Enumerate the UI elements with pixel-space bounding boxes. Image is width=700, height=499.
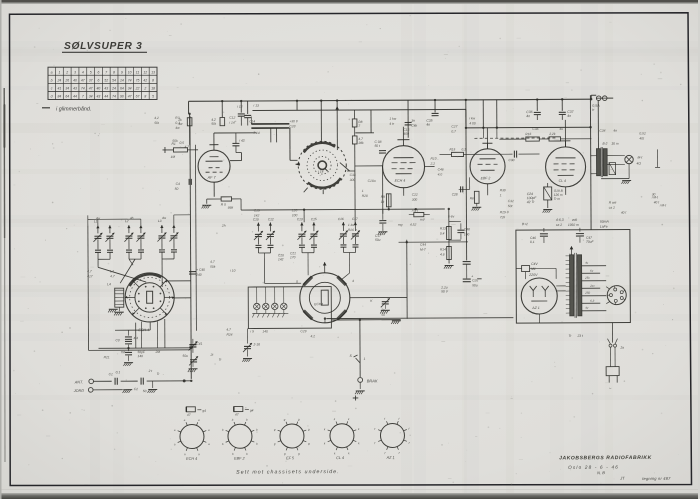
svg-text:M-T: M-T: [420, 248, 427, 252]
svg-text:JT: JT: [619, 476, 625, 481]
svg-text:SØLVSUPER 3: SØLVSUPER 3: [64, 41, 142, 52]
label T23: [568, 334, 584, 338]
svg-text:L2: L2: [125, 219, 129, 223]
svg-text:4n: 4n: [526, 114, 530, 118]
wire c48 link: [449, 221, 461, 240]
tube V2 ECH4: [382, 140, 424, 188]
wire trimmer drop1: [97, 259, 99, 267]
svg-text:417: 417: [87, 274, 93, 278]
trimmer group C5/C6: [93, 219, 114, 259]
svg-text:L4: L4: [107, 282, 111, 286]
wire ant line3: [147, 380, 192, 382]
socket EBF 2: [222, 418, 258, 461]
svg-text:R wtr: R wtr: [609, 201, 618, 205]
wire v7 down: [324, 319, 326, 323]
svg-text:34: 34: [65, 87, 69, 91]
svg-text:C4V: C4V: [531, 262, 538, 266]
svg-text:4: 4: [82, 70, 84, 74]
wire diag cross1: [98, 267, 146, 282]
tube V5 ECH4 front: [125, 273, 174, 332]
fuse mains box: [516, 266, 530, 280]
svg-text:ECH 4: ECH 4: [395, 179, 406, 183]
svg-text:34: 34: [128, 87, 132, 91]
svg-text:50u: 50u: [472, 283, 478, 287]
svg-text:90: 90: [120, 95, 124, 99]
tube V1 AF7: [198, 133, 230, 182]
capacitor C2u elco: [463, 264, 482, 281]
svg-text:C1: C1: [109, 372, 113, 376]
svg-text:R14: R14: [440, 247, 446, 251]
svg-text:10: 10: [128, 70, 132, 74]
svg-text:50mA: 50mA: [600, 220, 610, 224]
svg-text:C28: C28: [289, 124, 295, 128]
svg-text:EF 5: EF 5: [286, 456, 295, 460]
svg-text:12: 12: [143, 70, 147, 74]
capacitor C2: [134, 378, 147, 394]
label 220V: [528, 262, 538, 277]
wire x588 down: [589, 95, 592, 229]
wire plug leads: [611, 347, 616, 367]
wire v3 right: [425, 166, 435, 168]
value labels: [86, 113, 668, 417]
wire x193 gnd: [192, 363, 194, 367]
svg-text:300: 300: [412, 198, 418, 202]
svg-text:i glimmerbånd.: i glimmerbånd.: [56, 106, 91, 113]
padder group C16-C17: [338, 217, 360, 258]
wire c36 stub: [536, 115, 538, 120]
svg-text:4,7: 4,7: [226, 328, 231, 332]
svg-text:C4: C4: [176, 182, 180, 186]
svg-text:CL 4: CL 4: [336, 456, 344, 460]
trimmer C22 gnd: [0, 1, 197, 352]
svg-text:C27: C27: [451, 124, 457, 128]
svg-text:R3: R3: [175, 116, 179, 120]
svg-text:7: 7: [358, 124, 360, 128]
wire x407 vert: [406, 240, 408, 319]
svg-text:8: 8: [152, 79, 154, 83]
svg-text:b: b: [51, 79, 53, 83]
svg-text:44: 44: [73, 95, 77, 99]
wire vert x88 top: [87, 215, 89, 225]
svg-text:i 12: i 12: [237, 105, 243, 109]
svg-text:47: 47: [81, 79, 85, 83]
svg-text:tegning nr 487: tegning nr 487: [642, 476, 671, 481]
svg-text:mg: mg: [398, 223, 403, 227]
ground x193: [188, 369, 198, 372]
svg-text:1092 m: 1092 m: [568, 223, 579, 227]
svg-text:4w: 4w: [162, 216, 167, 220]
wire drop x467: [465, 100, 468, 260]
wire avc drop2: [388, 194, 390, 209]
svg-text:2M: 2M: [155, 350, 161, 354]
wire ant line2: [121, 380, 138, 382]
svg-text:4,7: 4,7: [87, 269, 92, 273]
svg-text:1 kw: 1 kw: [348, 223, 355, 227]
wire trimmer top3: [174, 215, 191, 225]
svg-text:C34: C34: [350, 173, 356, 177]
wire diag cross2: [120, 259, 135, 283]
svg-text:1: 1: [58, 70, 60, 74]
svg-text:43: 43: [97, 95, 101, 99]
svg-text:4,7: 4,7: [184, 145, 189, 149]
ground V1 cathode: [202, 205, 212, 208]
label hoyt: [602, 142, 618, 146]
svg-text:50: 50: [175, 187, 179, 191]
wire y240 right: [399, 241, 468, 243]
wire rect bottom: [538, 314, 540, 323]
wire HT bus jog: [591, 95, 596, 99]
fuse F1 0.5A: [592, 96, 607, 112]
wire left bus drop: [189, 114, 191, 145]
trimmer C23: [243, 342, 260, 356]
wire v3 cath: [403, 188, 405, 196]
mains plug: [606, 367, 619, 391]
svg-text:C34: C34: [599, 129, 605, 133]
wire row y140: [499, 138, 591, 140]
resistor R9 cath: [381, 194, 391, 207]
switch S3 mains: [607, 339, 624, 350]
svg-text:R30: R30: [500, 188, 506, 192]
svg-text:Tr m: Tr m: [554, 197, 561, 201]
svg-text:R28: R28: [362, 194, 368, 198]
resistor R2 top: [177, 118, 192, 126]
svg-text:13: 13: [151, 70, 155, 74]
svg-text:C30: C30: [509, 158, 515, 162]
svg-text:R13: R13: [440, 226, 446, 230]
svg-text:2-18: 2-18: [252, 342, 260, 346]
wire v4 topcap: [482, 128, 492, 149]
svg-text:4 00: 4 00: [469, 121, 476, 125]
wire drop x242: [240, 101, 242, 112]
svg-text:ECH4: ECH4: [314, 302, 323, 306]
svg-text:42: 42: [143, 79, 147, 83]
svg-text:8: 8: [144, 95, 146, 99]
svg-text:4n: 4n: [567, 114, 571, 118]
svg-text:L20: L20: [292, 208, 298, 212]
ground y320 right: [391, 321, 401, 324]
svg-text:R21: R21: [104, 355, 110, 359]
transformer taps: [582, 261, 607, 311]
svg-text:9: 9: [121, 70, 123, 74]
socket EF 5: [274, 417, 310, 460]
resistor R13: [440, 226, 451, 239]
label 4ohm: [637, 161, 642, 165]
capacitor C47: [576, 228, 595, 244]
svg-text:1: 1: [364, 357, 366, 361]
svg-text:4w: 4w: [175, 126, 180, 130]
wire c17: [382, 209, 384, 213]
svg-text:6: 6: [97, 79, 99, 83]
ground C17: [378, 232, 388, 235]
wire v1 cath: [213, 182, 215, 196]
svg-text:84: 84: [58, 95, 62, 99]
capacitor C11: [237, 105, 245, 126]
svg-text:R10: R10: [431, 157, 437, 161]
wire x497 down: [496, 128, 498, 138]
label 50mA: [600, 220, 610, 229]
ground C3b: [123, 363, 133, 366]
ground BRAK: [355, 391, 365, 394]
svg-text:4n: 4n: [426, 123, 430, 127]
svg-text:72k: 72k: [500, 215, 506, 219]
label JAKOBSBERGS: [559, 455, 652, 461]
svg-text:C17: C17: [352, 217, 358, 221]
svg-text:4u: 4u: [559, 127, 563, 131]
wire brak gnd: [359, 382, 361, 388]
svg-text:0,1: 0,1: [530, 240, 535, 244]
wire y318 bus: [326, 317, 513, 320]
wire right stub: [655, 149, 660, 167]
svg-text:64: 64: [120, 87, 124, 91]
svg-text:14: 14: [120, 79, 124, 83]
svg-text:1: 1: [500, 193, 502, 197]
wire x383 vert: [382, 166, 384, 214]
svg-text:64: 64: [65, 95, 69, 99]
trimmer group C9/C10: [157, 219, 178, 259]
svg-text:C32: C32: [508, 199, 514, 203]
wire x88 bottom: [89, 349, 191, 352]
wire bus2 drop: [296, 101, 298, 110]
capacitor C1: [109, 370, 121, 385]
socket ECH 4: [174, 418, 210, 461]
wire fuse to right: [607, 97, 613, 99]
wire r19 top: [547, 183, 549, 187]
wire v7 top: [323, 262, 327, 273]
svg-text:d: d: [51, 95, 53, 99]
wire HT bus top: [189, 99, 592, 101]
svg-text:4: 4: [352, 279, 354, 283]
svg-text:JORD: JORD: [73, 389, 85, 393]
wire y329 seg: [115, 329, 150, 331]
wire drop x248: [247, 101, 249, 114]
wire socket links: [606, 287, 610, 304]
svg-text:ECH 4: ECH 4: [186, 457, 197, 461]
svg-text:C22: C22: [412, 193, 418, 197]
svg-text:42 Tr: 42 Tr: [527, 200, 536, 204]
label Oslo: [568, 465, 619, 470]
svg-text:50: 50: [381, 313, 385, 317]
wire x484 down: [482, 128, 484, 138]
svg-text:R 5: R 5: [221, 203, 226, 207]
svg-text:54: 54: [112, 79, 116, 83]
capacitor C13 grid: [232, 133, 244, 153]
svg-text:C28: C28: [452, 192, 458, 196]
svg-text:C15: C15: [311, 217, 317, 221]
svg-text:4,6: 4,6: [440, 253, 445, 257]
title SOLVSUPER 3: [62, 41, 147, 52]
terminal JORD: [73, 388, 93, 393]
svg-text:86k: 86k: [228, 206, 234, 210]
wire trimmer drop2: [129, 259, 133, 265]
svg-text:24: 24: [111, 87, 116, 91]
wire y132 seg: [214, 132, 256, 134]
svg-text:1M: 1M: [170, 155, 175, 159]
ground OT: [621, 181, 631, 184]
wire avc drop1: [303, 210, 305, 222]
wire c3 stub: [127, 330, 129, 348]
svg-text:mV: mV: [420, 218, 426, 222]
capacitor C35: [426, 113, 438, 126]
svg-text:C44: C44: [420, 243, 426, 247]
antenna terminal ANT: [74, 379, 94, 384]
svg-text:C4b: C4b: [411, 124, 417, 128]
wire drop x436: [434, 100, 436, 112]
wire bus corner: [188, 101, 190, 113]
svg-text:C10: C10: [253, 217, 259, 221]
wire x466 down: [465, 128, 467, 149]
band switch S1 box: [248, 287, 331, 329]
svg-text:47: 47: [89, 87, 93, 91]
label B pluss: [522, 222, 528, 226]
wire bus2 down: [465, 109, 467, 127]
wire V1 topcap: [209, 144, 218, 146]
svg-text:250: 250: [584, 291, 590, 295]
label tegning: [619, 475, 671, 481]
padder group C10-C12: [253, 217, 284, 261]
svg-text:4,2: 4,2: [154, 116, 159, 120]
capacitor C48: [457, 223, 470, 239]
svg-text:2: 2: [65, 70, 68, 74]
svg-text:22: 22: [135, 87, 140, 91]
svg-text:4,2: 4,2: [310, 334, 315, 338]
svg-text:6,3: 6,3: [590, 299, 594, 303]
svg-text:52: 52: [104, 79, 108, 83]
wire y329 right: [331, 326, 449, 329]
wire x338 vert: [335, 101, 339, 151]
wire r5 right: [232, 199, 242, 210]
wire ot bottom: [601, 164, 629, 179]
wire drop x484: [482, 100, 484, 128]
wire v4 cath: [487, 184, 489, 195]
svg-text:30: 30: [652, 192, 656, 196]
svg-text:100: 100: [292, 213, 298, 217]
wire fuse down: [597, 101, 599, 149]
capacitor C08: [374, 140, 386, 153]
wire y133 seg: [355, 132, 374, 134]
svg-text:CL 4: CL 4: [559, 179, 566, 183]
ground jord: [123, 390, 133, 393]
wire drop x538: [536, 100, 538, 111]
wire drop x563: [561, 99, 563, 110]
svg-text:4n: 4n: [613, 129, 617, 133]
wire v5 anode: [560, 120, 570, 147]
wire x449 vert: [448, 209, 450, 263]
svg-text:R26 tr: R26 tr: [348, 228, 358, 232]
wire mains into: [530, 268, 557, 279]
svg-text:2h: 2h: [221, 224, 226, 228]
svg-text:140: 140: [262, 329, 268, 333]
svg-text:47: 47: [128, 95, 132, 99]
resistor R8a: [352, 119, 362, 128]
resistor R13m: [470, 191, 479, 203]
svg-text:4h: 4h: [130, 216, 134, 220]
wire r19 down: [547, 200, 549, 208]
svg-text:11: 11: [136, 70, 140, 74]
svg-text:41: 41: [58, 87, 62, 91]
wire rect fil: [556, 286, 566, 291]
wire jord link: [93, 389, 123, 391]
capacitor C19: [254, 103, 260, 107]
svg-text:C2: C2: [134, 387, 138, 391]
svg-text:B-2: B-2: [602, 142, 607, 146]
svg-text:40 t: 40 t: [654, 200, 659, 204]
svg-text:ca 2: ca 2: [609, 206, 615, 210]
capacitor C40 left: [189, 268, 205, 277]
svg-text:Sett mot chassisets underside: Sett mot chassisets underside.: [236, 469, 340, 476]
svg-text:142: 142: [254, 213, 260, 217]
trimmer C29: [381, 298, 390, 309]
svg-text:2,2k: 2,2k: [548, 132, 555, 136]
resistor R8b: [352, 136, 364, 145]
socket view rectifier: [607, 286, 626, 305]
wire c37 stub: [561, 115, 563, 120]
capacitor C17 elco: [375, 214, 387, 242]
svg-text:C29: C29: [300, 329, 306, 333]
svg-text:ANT.: ANT.: [74, 380, 83, 384]
svg-text:AF 7: AF 7: [207, 176, 217, 180]
resistor R14: [440, 246, 451, 259]
svg-text:2u: 2u: [380, 308, 385, 312]
tube V3 EBF2: [470, 143, 505, 184]
wire y155: [440, 153, 540, 156]
wire trimmer top2: [140, 219, 142, 225]
label NB: [597, 470, 605, 475]
IF transformer T1 can: [295, 141, 349, 194]
wire v1 anode right: [230, 153, 242, 161]
svg-text:C48: C48: [464, 227, 470, 231]
svg-text:i 13: i 13: [254, 103, 260, 107]
svg-text:50u: 50u: [183, 354, 189, 358]
socket CL 4: [324, 417, 360, 460]
capacitor C28: [452, 186, 463, 196]
svg-text:C3: C3: [115, 338, 119, 342]
capacitor C14: [244, 115, 255, 125]
wire bus2: [466, 126, 591, 129]
svg-text:g4: g4: [202, 409, 206, 413]
topcap sym 2: [234, 407, 254, 413]
svg-text:170: 170: [290, 255, 296, 259]
wire box down: [246, 329, 248, 344]
svg-text:1: 1: [362, 189, 364, 193]
svg-text:40: 40: [73, 79, 77, 83]
resistor R19 boxed: [544, 187, 564, 201]
ground L4: [108, 309, 124, 315]
svg-text:C46: C46: [438, 168, 444, 172]
wire r18: [409, 214, 430, 216]
wire AVC bus: [241, 209, 445, 210]
tube V6 ECH4 mixer: [300, 273, 350, 323]
wire x371 vert: [370, 110, 372, 133]
wire box down plug: [611, 323, 613, 343]
svg-text:5-6v: 5-6v: [448, 214, 455, 218]
svg-text:C18a: C18a: [368, 179, 376, 183]
node mark 5: [353, 395, 359, 400]
svg-text:C14: C14: [249, 119, 255, 123]
resistor R16: [525, 132, 539, 141]
svg-text:44: 44: [104, 95, 108, 99]
wire can leads: [271, 128, 277, 142]
wire L4 gnd: [118, 307, 120, 311]
resistor R15: [449, 147, 466, 156]
svg-text:6: 6: [97, 70, 99, 74]
svg-text:JAKOBSBERGS RADIOFABRIKK: JAKOBSBERGS RADIOFABRIKK: [559, 455, 652, 461]
svg-text:R6: R6: [470, 196, 474, 200]
capacitor C3b below: [125, 348, 146, 361]
svg-text:50: 50: [143, 389, 147, 393]
svg-text:300: 300: [350, 178, 356, 182]
svg-text:34: 34: [89, 95, 93, 99]
svg-text:400: 400: [403, 132, 409, 136]
